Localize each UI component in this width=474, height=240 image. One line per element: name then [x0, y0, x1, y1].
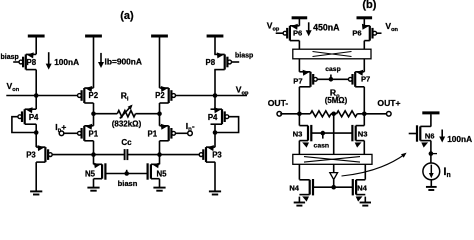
wire P6 right drain to box — [363, 41, 365, 50]
node Vop junction — [213, 93, 218, 98]
wire Ro right lead — [357, 113, 364, 115]
wire N5 right source to ground — [159, 179, 161, 188]
svg-text:P2: P2 — [89, 91, 99, 100]
transistor P4 left — [18, 107, 39, 124]
wire N4 right source to ground — [364, 197, 366, 203]
wire N5 left source to ground — [93, 179, 95, 188]
wire VDD to P2 left source — [93, 37, 95, 88]
svg-text:N3: N3 — [358, 129, 368, 138]
node N4 gate junction — [331, 185, 336, 190]
wire N3 left source to box — [298, 141, 300, 155]
transistor P7 right — [348, 70, 370, 87]
wire biasp to P8 left gate — [13, 61, 19, 63]
VDD rail symbol above P2 right — [151, 35, 168, 38]
svg-text:P8: P8 — [206, 58, 216, 67]
VDD rail symbol above P8 left — [28, 35, 45, 38]
svg-text:In+: In+ — [55, 122, 66, 134]
wire node to N5 left drain — [93, 155, 95, 165]
transistor N5 right — [148, 163, 168, 180]
svg-text:Ri: Ri — [121, 90, 129, 102]
wire N6 gate stub — [409, 133, 418, 135]
transistor P6 left — [283, 24, 302, 41]
node Cc left junction — [91, 152, 96, 157]
wire P7 right drain to OUT+ — [363, 87, 365, 114]
transistor N5 left — [85, 163, 105, 180]
transistor P1 right — [148, 124, 176, 141]
wire Ri left lead — [94, 113, 118, 115]
svg-text:P1: P1 — [148, 130, 158, 139]
wire box to N4 right drain — [364, 164, 366, 179]
wire node to P3 right gate — [160, 154, 200, 156]
svg-text:P8: P8 — [27, 58, 37, 67]
label Von left — [7, 81, 20, 93]
svg-text:P2: P2 — [155, 91, 165, 100]
ground P3 right — [209, 191, 221, 194]
wire Ro midpoint to lower box — [333, 114, 335, 155]
ground N4 right — [360, 203, 371, 206]
node Ri right junction — [157, 111, 162, 116]
node biasn junction — [124, 170, 129, 176]
label biasp left — [1, 54, 19, 61]
label Von b — [385, 21, 398, 33]
svg-text:P1: P1 — [89, 130, 99, 139]
figure label (b) — [362, 0, 376, 11]
label biasp right — [235, 53, 253, 60]
label Vop b — [267, 21, 280, 33]
ground N4 left — [294, 203, 305, 206]
svg-text:biasp: biasp — [235, 53, 253, 60]
svg-text:(5MΩ): (5MΩ) — [325, 96, 348, 105]
wire N3 right source to box — [363, 141, 365, 155]
svg-text:Ib=900nA: Ib=900nA — [105, 57, 142, 67]
resistor Ri — [117, 105, 135, 119]
wire Ri right lead — [136, 113, 160, 115]
wire Vop node to P4 right source — [214, 96, 216, 110]
VDD rail symbol above P6 right — [357, 16, 373, 19]
wire P8 left drain to Von node — [35, 70, 37, 96]
wire node to current source — [430, 154, 432, 163]
wire VDD to P8 left source — [35, 37, 37, 54]
input terminal In- — [186, 121, 195, 135]
wire biasn rail — [105, 173, 147, 175]
label casp — [325, 66, 341, 73]
wire VDD to P6 right source — [363, 19, 365, 26]
svg-text:casp: casp — [325, 66, 341, 73]
svg-text:P7: P7 — [293, 76, 302, 85]
wire P8 right drain to Vop node — [214, 70, 216, 96]
svg-text:OUT+: OUT+ — [377, 98, 400, 108]
current source In — [423, 163, 451, 180]
wire node to P3 left source — [35, 133, 37, 148]
transistor P3 left — [26, 145, 52, 162]
ground P3 left — [30, 191, 42, 194]
node P4/P3 left junction — [34, 130, 39, 135]
svg-text:In-: In- — [186, 121, 195, 133]
wire Vop to P6 left gate — [276, 32, 284, 34]
wire VDD to P2 right source — [159, 37, 161, 88]
svg-text:P7: P7 — [361, 75, 370, 84]
svg-text:biasp: biasp — [1, 54, 19, 61]
label Ri — [121, 90, 129, 102]
svg-text:100nA: 100nA — [54, 57, 79, 67]
node N6 source junction — [429, 151, 437, 156]
wire P1 left drain to Cc node — [93, 141, 95, 155]
wire VDD to N6 drain — [430, 114, 432, 126]
transistor P7 left — [293, 70, 317, 87]
wire box to P7 right source — [363, 59, 365, 72]
transistor P2 right — [155, 86, 175, 103]
transistor P6 right — [352, 24, 376, 41]
wire P3 left gate to node — [52, 154, 93, 156]
svg-text:P6: P6 — [352, 28, 361, 37]
figure label (a) — [120, 10, 134, 22]
wire Cc capacitor to node — [127, 154, 159, 156]
svg-text:P3: P3 — [212, 151, 222, 160]
wire P6 left drain to box — [298, 41, 300, 50]
wire P2 right drain to Ri node — [159, 103, 161, 126]
svg-text:OUT-: OUT- — [268, 98, 289, 108]
wire P4 right diode connection — [215, 117, 239, 133]
value label 5M — [325, 96, 348, 105]
svg-text:P4: P4 — [208, 113, 218, 122]
wire OUT- node to N3 left drain — [298, 114, 300, 126]
output terminal OUT+ — [377, 98, 400, 116]
svg-text:Cc: Cc — [121, 138, 132, 147]
transistor P2 left — [78, 86, 99, 103]
wire N4 left source to ground — [298, 197, 300, 203]
VDD rail symbol above P6 left — [292, 16, 308, 19]
wire Von node to P4 left source — [35, 96, 37, 110]
wire P4 left diode connection — [12, 117, 36, 133]
transistor P3 right — [199, 145, 222, 162]
wire In+ to P1 left gate — [64, 132, 78, 134]
resistor Ro right half — [337, 111, 358, 117]
node Von junction — [34, 93, 39, 98]
transistor P8 right — [206, 52, 232, 69]
resistor Ro left half — [310, 111, 331, 117]
transistor N4 right — [353, 179, 368, 202]
svg-text:Vop: Vop — [236, 84, 249, 96]
svg-text:biasn: biasn — [118, 179, 138, 188]
svg-text:N3: N3 — [293, 129, 303, 138]
transistor P8 left — [19, 52, 37, 69]
node Cc right junction — [157, 152, 162, 157]
wire P1 right drain to Cc node — [159, 141, 161, 155]
node P4/P3 right junction — [213, 130, 218, 135]
svg-text:N5: N5 — [85, 169, 96, 178]
annotation arrow to In mirror — [342, 153, 407, 176]
svg-text:(b): (b) — [362, 0, 376, 11]
wire node to Ro left — [299, 113, 310, 115]
wire box to P7 left source — [298, 59, 300, 72]
wire P3 right drain to ground — [214, 162, 216, 191]
transistor P1 left — [78, 124, 99, 141]
svg-text:N4: N4 — [357, 184, 367, 193]
input terminal In+ — [55, 122, 66, 136]
svg-text:In: In — [443, 166, 450, 179]
wire casn rail — [311, 132, 352, 134]
svg-text:N6: N6 — [425, 131, 435, 140]
svg-text:Vop: Vop — [267, 21, 280, 33]
label biasn — [118, 179, 138, 188]
node OUT- junction — [297, 112, 302, 117]
current label 450nA — [306, 22, 340, 36]
node casp junction — [329, 75, 334, 82]
svg-text:N5: N5 — [157, 169, 168, 178]
cascode bias box lower — [293, 154, 372, 164]
svg-text:Von: Von — [7, 81, 20, 93]
node Ro midpoint — [331, 112, 336, 117]
wire node to Cc capacitor — [94, 154, 125, 156]
output terminal OUT- — [268, 98, 289, 116]
VDD rail symbol above N6 — [422, 111, 439, 114]
transistor N3 right — [352, 125, 367, 148]
wire OUT+ node to N3 right drain — [363, 114, 365, 126]
svg-text:P6: P6 — [293, 28, 302, 37]
wire P3 left drain to ground — [35, 162, 37, 191]
wire current source to ground — [430, 180, 432, 187]
wire node to N5 right drain — [159, 155, 161, 165]
wire P4 left drain to node — [35, 124, 37, 132]
wire P6 right gate to Von — [376, 32, 381, 34]
bias triangle symbol — [330, 164, 338, 187]
wire P2 left drain to Ri node — [93, 103, 95, 126]
node OUT+ junction — [362, 112, 367, 117]
wire node to P3 right source — [214, 133, 216, 148]
wire P7 left drain to OUT- — [298, 87, 300, 114]
svg-text:450nA: 450nA — [313, 22, 340, 32]
wire Ro middle — [331, 113, 337, 115]
transistor P4 right — [208, 107, 229, 124]
svg-text:P3: P3 — [26, 151, 36, 160]
wire P1 right gate to In- — [175, 132, 187, 134]
label Ro — [330, 87, 340, 99]
capacitor Cc — [121, 138, 132, 160]
svg-text:(832kΩ): (832kΩ) — [112, 120, 142, 129]
wire Vop rail — [175, 95, 247, 97]
svg-text:P4: P4 — [29, 113, 39, 122]
wire P8 right gate to biasp — [231, 61, 239, 63]
current label 100nA left — [46, 52, 79, 69]
wire node to OUT+ — [364, 113, 386, 115]
node casn junction — [321, 131, 326, 139]
label Vop right — [236, 84, 249, 96]
ground In source — [426, 187, 437, 190]
current label Ib=900nA — [98, 53, 142, 68]
wire N4 right gate rail — [334, 186, 353, 188]
ground N5 left — [87, 188, 99, 191]
wire VDD to P8 right source — [214, 37, 216, 54]
cascode bias box upper — [293, 49, 371, 59]
ground N5 right — [153, 188, 165, 191]
VDD rail symbol above P8 right — [207, 35, 224, 38]
VDD rail symbol above P2 left — [85, 35, 102, 38]
transistor N6 — [417, 125, 435, 147]
wire P4 right drain to node — [214, 124, 216, 132]
current label 100nA right — [439, 130, 472, 145]
wire casp rail — [317, 78, 348, 80]
wire Von rail — [6, 95, 77, 97]
wire OUT- to node — [280, 113, 299, 115]
node Ri left junction — [91, 111, 96, 116]
transistor N4 left — [289, 179, 313, 202]
svg-text:Von: Von — [385, 21, 398, 33]
transistor N3 left — [293, 125, 312, 148]
wire N6 source to node — [430, 141, 432, 154]
value label 832k — [112, 120, 142, 129]
wire box to N4 left drain — [298, 164, 300, 179]
label casn — [314, 143, 330, 150]
wire VDD to P6 left source — [298, 19, 300, 26]
svg-text:(a): (a) — [120, 10, 134, 22]
wire N4 left gate rail — [313, 186, 334, 188]
svg-text:casn: casn — [314, 143, 330, 150]
svg-text:N4: N4 — [289, 184, 299, 193]
svg-text:100nA: 100nA — [447, 134, 472, 144]
